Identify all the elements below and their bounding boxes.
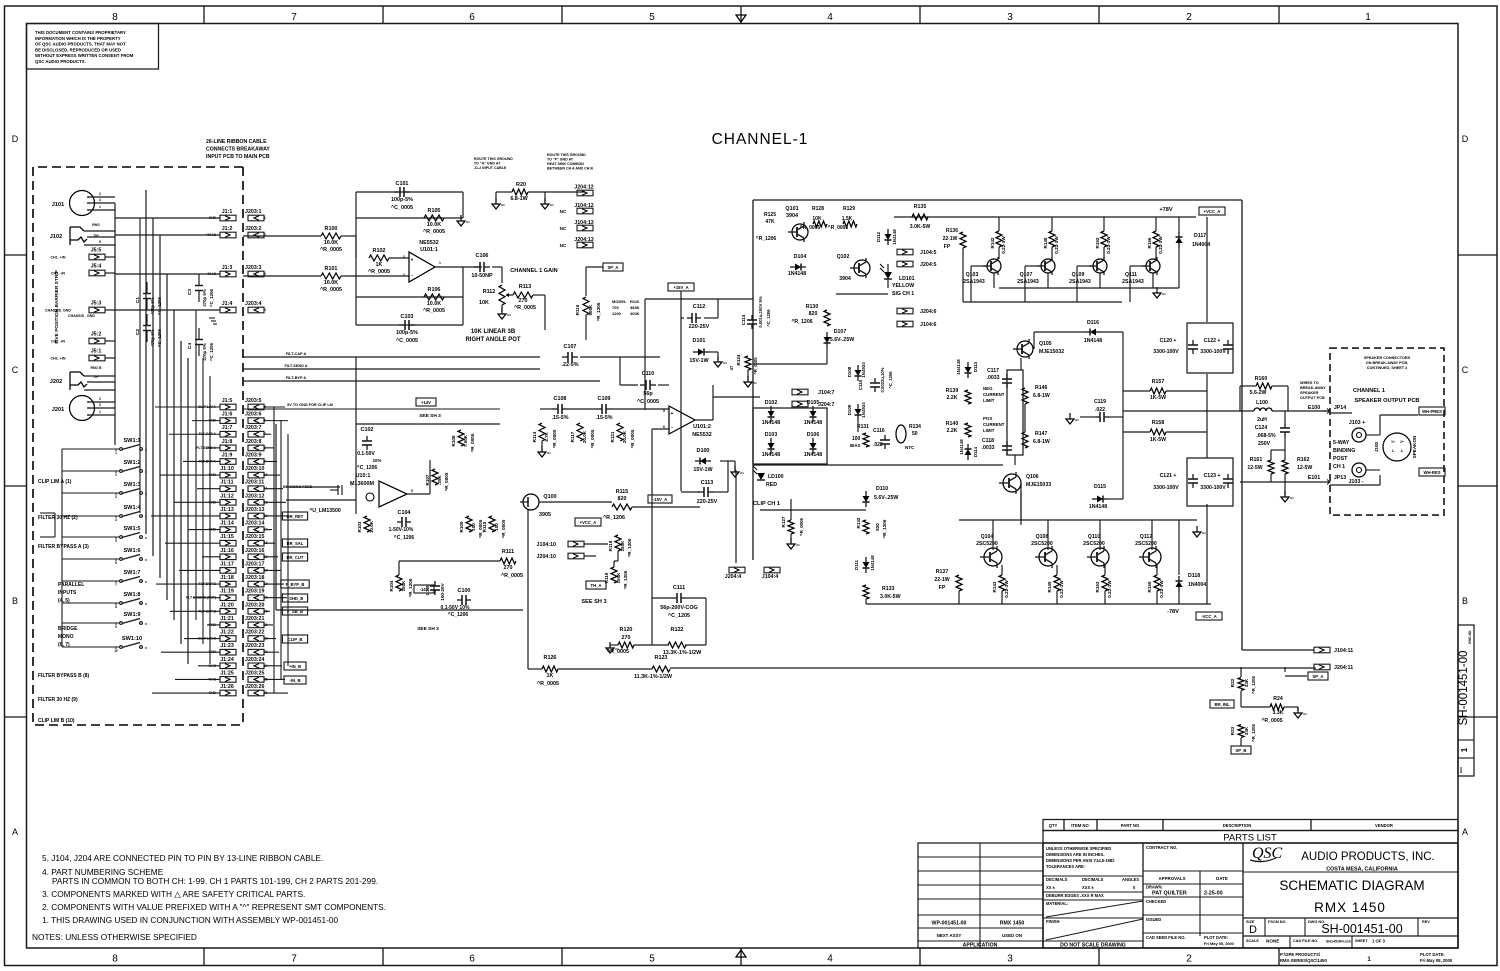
svg-text:A1: A1	[740, 471, 744, 475]
svg-text:J102: J102	[50, 234, 62, 240]
svg-text:47: 47	[729, 365, 734, 370]
svg-text:1-: 1-	[1392, 449, 1395, 453]
svg-text:x: x	[145, 536, 147, 540]
svg-text:R159: R159	[1147, 581, 1152, 592]
svg-text:R101: R101	[325, 266, 338, 272]
svg-text:OF QSC AUDIO PRODUCTS, THAT MA: OF QSC AUDIO PRODUCTS, THAT MAY NOT	[35, 42, 126, 47]
svg-text:JP13: JP13	[1334, 475, 1346, 481]
svg-text:J1:18: J1:18	[220, 575, 234, 581]
svg-text:5-WAY: 5-WAY	[1333, 440, 1350, 446]
svg-text:B: B	[12, 596, 18, 606]
svg-text:+15V_A: +15V_A	[673, 285, 688, 290]
svg-text:3300-100V: 3300-100V	[1153, 485, 1179, 491]
svg-text:J1:2: J1:2	[222, 226, 233, 232]
svg-text:C117: C117	[987, 368, 999, 374]
svg-text:NONE: NONE	[1266, 939, 1279, 944]
svg-text:SW1:4: SW1:4	[123, 505, 141, 511]
svg-text:J202: J202	[50, 379, 62, 385]
svg-text:33K: 33K	[1244, 726, 1249, 735]
svg-text:MONO: MONO	[58, 634, 74, 640]
svg-text:J203:6: J203:6	[245, 412, 262, 418]
svg-text:R117: R117	[570, 431, 575, 442]
svg-text:^C_0005: ^C_0005	[637, 399, 659, 405]
svg-text:3: 3	[115, 495, 117, 499]
svg-text:BIAS: BIAS	[850, 443, 861, 448]
svg-text:R148: R148	[1043, 237, 1048, 248]
svg-text:J103 +: J103 +	[1349, 420, 1365, 426]
svg-text:^C_0005: ^C_0005	[391, 205, 413, 211]
svg-text:USED ON: USED ON	[1002, 933, 1022, 938]
svg-text:C112: C112	[693, 304, 706, 310]
svg-text:CONNECTS BREAKAWAY: CONNECTS BREAKAWAY	[206, 147, 270, 153]
svg-text:D: D	[12, 134, 19, 144]
svg-text:x: x	[145, 622, 147, 626]
svg-text:820: 820	[875, 523, 880, 531]
svg-text:A1: A1	[507, 313, 511, 317]
svg-text:ITEM NO: ITEM NO	[1071, 823, 1089, 828]
svg-text:3: 3	[1007, 954, 1013, 965]
svg-text:J203:5: J203:5	[245, 398, 262, 404]
svg-text:C115: C115	[858, 379, 863, 390]
svg-text:250V: 250V	[1258, 441, 1271, 447]
svg-text:820: 820	[809, 311, 818, 317]
svg-text:^R_0005: ^R_0005	[590, 429, 595, 448]
svg-text:R140: R140	[946, 421, 959, 427]
svg-text:R114: R114	[532, 431, 537, 442]
svg-text:2: 2	[99, 192, 101, 196]
svg-text:PLOT DATE:: PLOT DATE:	[1420, 952, 1445, 957]
svg-text:7: 7	[351, 483, 353, 487]
svg-text:CURRENT: CURRENT	[983, 422, 1005, 427]
svg-text:J104:5: J104:5	[920, 250, 937, 256]
svg-text:SW1:1: SW1:1	[123, 438, 140, 444]
svg-text:PARTS LIST: PARTS LIST	[1223, 833, 1277, 844]
svg-text:100p-5%: 100p-5%	[391, 197, 413, 203]
svg-text:1N4148: 1N4148	[788, 271, 806, 277]
svg-text:2SC5200: 2SC5200	[1083, 541, 1105, 547]
svg-text:4: 4	[827, 954, 833, 965]
svg-text:E101: E101	[1308, 475, 1320, 481]
svg-text:C3: C3	[187, 289, 193, 295]
svg-text:J1:11: J1:11	[220, 480, 233, 486]
svg-text:J1:24: J1:24	[220, 657, 234, 663]
svg-text:J104:10: J104:10	[537, 542, 556, 548]
svg-text:^R_1206: ^R_1206	[627, 538, 632, 557]
svg-text:D112: D112	[876, 231, 881, 242]
svg-text:C111: C111	[673, 585, 685, 591]
svg-text:8: 8	[112, 12, 118, 23]
svg-text:Q110: Q110	[1088, 534, 1101, 540]
svg-text:APPROVALS: APPROVALS	[1159, 876, 1186, 881]
svg-text:C103: C103	[401, 314, 414, 320]
svg-text:2uH: 2uH	[1257, 417, 1267, 423]
svg-text:220-25V: 220-25V	[689, 324, 710, 330]
svg-text:0.0022u,10%: 0.0022u,10%	[880, 367, 885, 392]
svg-text:5V TO GND FOR CLIP LM: 5V TO GND FOR CLIP LM	[287, 403, 333, 407]
svg-text:D106: D106	[807, 432, 820, 438]
svg-text:0.1-50V: 0.1-50V	[357, 451, 375, 457]
svg-text:5: 5	[99, 240, 101, 244]
svg-text:C104: C104	[398, 510, 411, 516]
svg-text:DATE: DATE	[1216, 876, 1228, 881]
svg-text:x: x	[145, 580, 147, 584]
svg-text:D118: D118	[1188, 573, 1200, 579]
svg-text:^R_1206: ^R_1206	[756, 236, 777, 242]
svg-text:RIGHT ANGLE POT: RIGHT ANGLE POT	[465, 337, 520, 343]
svg-text:1K-5W: 1K-5W	[1150, 395, 1166, 401]
svg-text:^R_0005: ^R_0005	[828, 225, 849, 231]
svg-text:J5:5: J5:5	[91, 248, 102, 254]
svg-text:.39K: .39K	[437, 474, 442, 484]
svg-text:FILTER BYPASS B (8): FILTER BYPASS B (8)	[38, 673, 90, 679]
svg-text:SH1451R4.sch: SH1451R4.sch	[1326, 940, 1351, 944]
svg-text:2: 2	[1186, 954, 1192, 965]
svg-text:2SC5200: 2SC5200	[976, 541, 998, 547]
svg-text:R112: R112	[483, 289, 496, 295]
svg-text:0.22-3W: 0.22-3W	[1107, 580, 1112, 598]
svg-text:DECIMALS: DECIMALS	[1082, 877, 1104, 882]
svg-text:^R_0005: ^R_0005	[1261, 718, 1282, 724]
svg-text:^C_1206: ^C_1206	[209, 288, 214, 307]
svg-text:J203:7: J203:7	[245, 425, 262, 431]
svg-text:50: 50	[912, 431, 918, 437]
svg-text:10K: 10K	[479, 300, 489, 306]
svg-text:REV: REV	[1459, 767, 1463, 773]
svg-text:SW1:3: SW1:3	[123, 482, 140, 488]
svg-text:2SA1943: 2SA1943	[963, 279, 985, 285]
svg-text:C109: C109	[598, 396, 611, 402]
svg-text:1: 1	[1365, 12, 1371, 23]
svg-text:^R_1206: ^R_1206	[1251, 723, 1256, 742]
svg-text:J203:9: J203:9	[245, 453, 262, 459]
svg-text:220-25V: 220-25V	[697, 499, 718, 505]
svg-text:DWG NO.: DWG NO.	[1468, 630, 1472, 644]
svg-text:383K: 383K	[630, 305, 640, 310]
svg-text:R157: R157	[1152, 379, 1165, 385]
svg-text:J5:4: J5:4	[91, 264, 102, 270]
svg-text:J1:26: J1:26	[220, 684, 234, 690]
svg-text:3904: 3904	[786, 213, 798, 219]
svg-text:CAD FILE NO.: CAD FILE NO.	[1293, 939, 1318, 943]
svg-text:R22: R22	[1230, 678, 1235, 687]
svg-text:J101: J101	[52, 202, 64, 208]
svg-text:10.0K: 10.0K	[427, 301, 441, 307]
svg-text:NEG: NEG	[983, 386, 993, 391]
svg-text:A1: A1	[1290, 496, 1294, 500]
svg-text:1N4148: 1N4148	[762, 420, 780, 426]
svg-text:150K: 150K	[401, 580, 406, 592]
svg-text:CHANNEL 1 GAIN: CHANNEL 1 GAIN	[510, 268, 557, 274]
svg-text:D101: D101	[693, 338, 706, 344]
svg-text:A1: A1	[1303, 712, 1307, 716]
svg-text:RMX 1450: RMX 1450	[1000, 921, 1025, 927]
svg-text:MJE15032: MJE15032	[1039, 349, 1064, 355]
svg-text:0.22-3W: 0.22-3W	[1001, 236, 1006, 254]
svg-text:APPLICATION: APPLICATION	[963, 943, 998, 949]
svg-text:470p 5%: 470p 5%	[202, 289, 207, 307]
svg-text:J203:18: J203:18	[245, 575, 264, 581]
svg-text:20.0K: 20.0K	[582, 430, 587, 443]
svg-text:100: 100	[494, 523, 499, 531]
svg-text:CAD SEED FILE NO.: CAD SEED FILE NO.	[1146, 935, 1186, 940]
svg-text:J204:5: J204:5	[920, 262, 937, 268]
svg-text:SPEAKER CONNECTORS: SPEAKER CONNECTORS	[1364, 356, 1411, 360]
svg-text:-IN_B: -IN_B	[290, 678, 301, 683]
svg-text:BR_INL: BR_INL	[1214, 702, 1230, 707]
svg-text:^R_0005: ^R_0005	[501, 519, 506, 538]
svg-text:500K: 500K	[588, 304, 593, 316]
svg-text:R118: R118	[608, 540, 613, 551]
svg-text:J104:7: J104:7	[818, 390, 835, 396]
svg-text:0.22-3W: 0.22-3W	[1106, 236, 1111, 254]
svg-text:C122 +: C122 +	[1204, 338, 1221, 344]
svg-text:^R_0005: ^R_0005	[320, 287, 342, 293]
svg-text:J5:3: J5:3	[91, 301, 102, 307]
svg-text:CH1_+IN: CH1_+IN	[51, 256, 66, 260]
svg-text:J203:19: J203:19	[245, 589, 264, 595]
svg-text:YELLOW: YELLOW	[892, 283, 914, 289]
svg-text:SW1:10: SW1:10	[122, 636, 142, 642]
svg-text:8: 8	[112, 954, 118, 965]
svg-text:7: 7	[291, 12, 297, 23]
svg-text:J1:3: J1:3	[222, 265, 233, 271]
svg-text:J203:25: J203:25	[245, 670, 264, 676]
svg-text:PLOT DATE:: PLOT DATE:	[1204, 935, 1228, 940]
svg-text:.15-5%: .15-5%	[551, 415, 568, 421]
svg-text:10.0K: 10.0K	[324, 240, 338, 246]
svg-text:J104:6: J104:6	[920, 322, 937, 328]
svg-text:5: 5	[663, 409, 665, 413]
svg-text:SCHEMATIC DIAGRAM: SCHEMATIC DIAGRAM	[1279, 878, 1424, 893]
svg-text:15V-1W: 15V-1W	[689, 358, 709, 364]
svg-text:270: 270	[504, 565, 513, 571]
svg-text:NC: NC	[560, 209, 567, 214]
svg-text:^R_0005: ^R_0005	[444, 472, 449, 491]
svg-text:J1:7: J1:7	[222, 425, 233, 431]
svg-text:SH-001451-00: SH-001451-00	[1458, 651, 1470, 726]
svg-text:R152: R152	[1095, 237, 1100, 248]
svg-text:3.0K-5W: 3.0K-5W	[910, 224, 931, 230]
svg-text:CH2_+IN: CH2_+IN	[51, 357, 66, 361]
svg-text:^C_1206: ^C_1206	[766, 309, 771, 327]
svg-text:^R_0005: ^R_0005	[753, 357, 758, 375]
svg-text:^R_1206: ^R_1206	[1251, 675, 1256, 694]
svg-text:WP-001451-00: WP-001451-00	[932, 921, 967, 927]
svg-text:TO "A" GND AT: TO "A" GND AT	[474, 162, 501, 166]
svg-text:2SA1943: 2SA1943	[1017, 279, 1039, 285]
svg-text:R128: R128	[812, 206, 824, 212]
svg-text:15V-1W: 15V-1W	[693, 467, 713, 473]
svg-text:A1: A1	[550, 203, 554, 207]
svg-text:D110: D110	[876, 486, 888, 492]
svg-text:2-: 2-	[1401, 449, 1404, 453]
svg-text:2SC5200: 2SC5200	[1031, 541, 1053, 547]
svg-text:0.001u,100V 5%: 0.001u,100V 5%	[758, 296, 763, 327]
svg-text:FILT-BYP A: FILT-BYP A	[286, 376, 306, 380]
svg-text:TOLERANCES ARE:: TOLERANCES ARE:	[1046, 864, 1085, 869]
svg-text:Q104: Q104	[981, 534, 994, 540]
svg-text:WIRES TO: WIRES TO	[1300, 381, 1319, 385]
svg-text:CH1_-IN: CH1_-IN	[51, 272, 65, 276]
svg-text:UNLESS OTHERWISE SPECIFIED: UNLESS OTHERWISE SPECIFIED	[1046, 846, 1111, 851]
svg-text:3: 3	[1007, 12, 1013, 23]
svg-text:+VCC_A: +VCC_A	[1204, 209, 1221, 214]
svg-text:ANGLES: ANGLES	[1122, 877, 1139, 882]
svg-text:C113: C113	[701, 480, 714, 486]
svg-text:4: 4	[115, 518, 117, 522]
svg-text:C106: C106	[476, 253, 489, 259]
svg-text:C124: C124	[1255, 425, 1268, 431]
svg-text:J203:8: J203:8	[245, 439, 262, 445]
svg-text:J203:20: J203:20	[245, 602, 264, 608]
svg-text:SP_A: SP_A	[608, 265, 619, 270]
svg-text:1+: 1+	[1391, 440, 1395, 444]
svg-text:1N4148: 1N4148	[1084, 338, 1102, 344]
svg-text:12-5W: 12-5W	[1297, 465, 1312, 471]
svg-text:R139: R139	[946, 388, 959, 394]
svg-text:D: D	[1249, 924, 1257, 936]
svg-text:33K: 33K	[1244, 678, 1249, 687]
svg-text:2SA1943: 2SA1943	[1122, 279, 1144, 285]
svg-text:R115: R115	[616, 489, 629, 495]
svg-text:WITHOUT EXPRESS WRITTEN CONSEN: WITHOUT EXPRESS WRITTEN CONSENT FROM	[35, 53, 134, 58]
svg-text:22-1W: 22-1W	[943, 236, 958, 242]
svg-text:R142: R142	[990, 237, 995, 248]
svg-text:Q112: Q112	[1140, 534, 1153, 540]
svg-text:^R_0005: ^R_0005	[423, 229, 445, 235]
svg-text:D108: D108	[847, 366, 852, 377]
svg-text:^R_0005: ^R_0005	[514, 305, 536, 311]
svg-text:R162: R162	[1297, 457, 1310, 463]
svg-text:SCALE: SCALE	[1246, 939, 1259, 943]
svg-text:J203:15: J203:15	[245, 534, 264, 540]
svg-text:POST: POST	[1333, 456, 1348, 462]
svg-text:SW1:7: SW1:7	[123, 570, 140, 576]
svg-text:x: x	[145, 602, 147, 606]
svg-text:2SC5200: 2SC5200	[1135, 541, 1157, 547]
svg-text:C: C	[12, 365, 19, 375]
svg-text:.22-5%: .22-5%	[561, 362, 578, 368]
svg-text:A1: A1	[547, 451, 551, 455]
svg-text:R24: R24	[1273, 696, 1283, 702]
svg-text:NOTES: UNLESS OTHERWISE SPECIF: NOTES: UNLESS OTHERWISE SPECIFIED	[32, 932, 197, 942]
svg-text:D107: D107	[834, 329, 847, 335]
svg-text:J104:11: J104:11	[1334, 648, 1353, 654]
svg-text:2. COMPONENTS WITH VALUE PREFI: 2. COMPONENTS WITH VALUE PREFIXED WITH A…	[42, 902, 386, 912]
svg-text:FSCM NO.: FSCM NO.	[1268, 920, 1287, 924]
svg-text:1: 1	[1460, 747, 1469, 752]
svg-text:6: 6	[469, 12, 475, 23]
svg-text:Q101: Q101	[785, 206, 798, 212]
svg-text:J1-2 INPUT CABLE: J1-2 INPUT CABLE	[474, 166, 507, 170]
svg-text:PARTS IN COMMON TO BOTH CH: 1-: PARTS IN COMMON TO BOTH CH: 1-99. CH 1 P…	[52, 876, 378, 886]
svg-text:1200: 1200	[612, 311, 622, 316]
svg-text:10%: 10%	[373, 458, 382, 463]
svg-text:R153: R153	[1095, 581, 1100, 592]
svg-text:E100: E100	[1308, 405, 1320, 411]
svg-text:^R_1206: ^R_1206	[623, 570, 628, 589]
svg-text:7: 7	[291, 954, 297, 965]
svg-text:R131: R131	[857, 424, 869, 430]
svg-text:J203:26: J203:26	[245, 684, 264, 690]
svg-text:R110: R110	[482, 521, 487, 532]
svg-text:2.2K: 2.2K	[947, 395, 958, 401]
svg-text:1N4934: 1N4934	[861, 362, 866, 378]
svg-text:A1: A1	[1202, 531, 1206, 535]
svg-text:RNG: RNG	[92, 223, 100, 227]
svg-text:R135: R135	[914, 204, 927, 210]
svg-text:J203:10: J203:10	[245, 466, 264, 472]
svg-text:1N4148: 1N4148	[956, 359, 961, 375]
svg-text:THIS DOCUMENT CONTAINS PROPRIE: THIS DOCUMENT CONTAINS PROPRIETARY	[35, 30, 126, 35]
svg-text:J204:13: J204:13	[574, 237, 593, 243]
svg-text:J103 -: J103 -	[1348, 479, 1363, 485]
svg-text:3300-100V: 3300-100V	[1200, 485, 1226, 491]
svg-text:J203:12: J203:12	[245, 493, 264, 499]
svg-text:Q105: Q105	[1039, 341, 1052, 347]
svg-text:.15-5%: .15-5%	[595, 415, 612, 421]
svg-text:SPEAKER: SPEAKER	[1300, 391, 1319, 395]
svg-text:3904: 3904	[839, 276, 851, 282]
svg-text:SP_B: SP_B	[1236, 748, 1247, 753]
svg-text:BETWEEN CH A AND CH B: BETWEEN CH A AND CH B	[547, 167, 593, 171]
svg-text:7.50K: 7.50K	[463, 434, 468, 447]
svg-text:J203:23: J203:23	[245, 643, 264, 649]
svg-text:1K: 1K	[376, 262, 383, 268]
svg-text:^R_0005: ^R_0005	[799, 517, 804, 536]
svg-text:0.22-3W: 0.22-3W	[1059, 580, 1064, 598]
svg-text:LIMIT: LIMIT	[983, 398, 995, 403]
svg-text:-14V: -14V	[420, 587, 429, 592]
svg-text:0.22-3W: 0.22-3W	[1004, 580, 1009, 598]
svg-text:0.22-3W: 0.22-3W	[1054, 236, 1059, 254]
svg-text:100: 100	[852, 436, 861, 442]
svg-text:BE DISCLOSED, REPRODUCED OR US: BE DISCLOSED, REPRODUCED OR USED	[35, 47, 121, 52]
svg-text:SIG CH 1: SIG CH 1	[892, 291, 914, 297]
svg-text:R122: R122	[671, 627, 684, 633]
svg-text:A1: A1	[1162, 292, 1166, 296]
svg-text:CHANNEL 1: CHANNEL 1	[1353, 388, 1385, 394]
svg-text:150K: 150K	[620, 540, 625, 552]
svg-text:FILTER 30 HZ (9): FILTER 30 HZ (9)	[38, 697, 78, 703]
svg-text:R156: R156	[1147, 237, 1152, 248]
svg-text:VENDOR: VENDOR	[1375, 823, 1393, 828]
svg-text:SH-001451-00: SH-001451-00	[1321, 922, 1402, 936]
svg-text:QSC: QSC	[1252, 845, 1283, 862]
svg-text:R126: R126	[544, 655, 557, 661]
svg-text:+78V: +78V	[1159, 207, 1172, 213]
svg-text:5.6V-.25W: 5.6V-.25W	[830, 337, 854, 343]
svg-text:D113: D113	[973, 361, 978, 372]
svg-text:RED: RED	[766, 482, 777, 488]
svg-text:A: A	[12, 827, 18, 837]
svg-text:1N4148: 1N4148	[870, 555, 875, 571]
svg-text:6: 6	[115, 561, 117, 565]
svg-text:MATERIAL:: MATERIAL:	[1046, 901, 1068, 906]
svg-text:FILT-SEND A: FILT-SEND A	[285, 364, 308, 368]
svg-text:D100: D100	[697, 448, 710, 454]
svg-text:C119: C119	[1094, 399, 1106, 405]
svg-text:J1:13: J1:13	[220, 507, 234, 513]
svg-text:R116: R116	[630, 299, 640, 304]
svg-text:1N4148: 1N4148	[762, 452, 780, 458]
svg-text:^C_0005: ^C_0005	[396, 338, 418, 344]
svg-text:R20: R20	[516, 182, 526, 188]
svg-text:10: 10	[114, 649, 118, 653]
svg-text:J1:8: J1:8	[222, 439, 233, 445]
svg-text:2: 2	[403, 273, 405, 277]
svg-text:J203:4: J203:4	[245, 301, 262, 307]
